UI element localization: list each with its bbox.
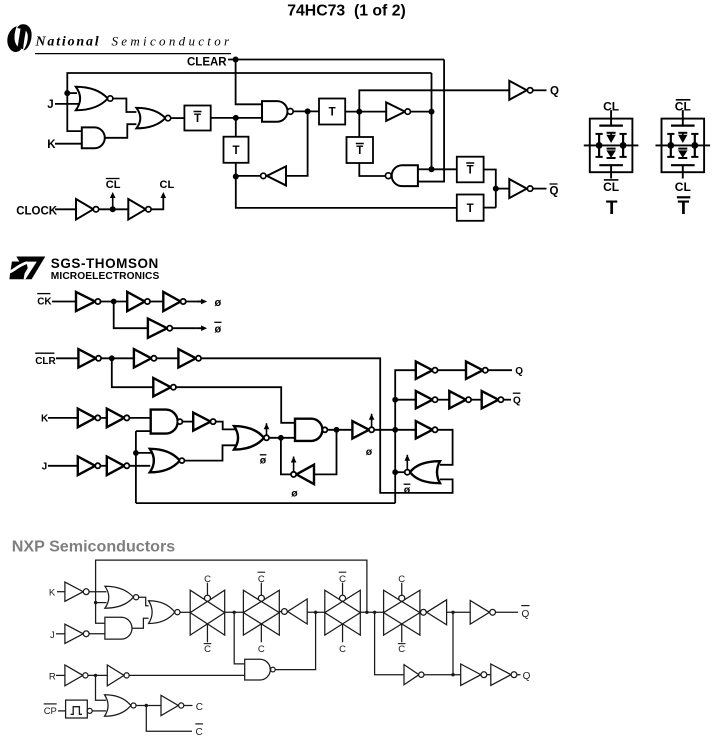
junction C node xyxy=(145,704,148,707)
wire E1 output xyxy=(269,437,295,439)
legend Tbar symbol label CLbar top xyxy=(675,99,691,113)
transmission-gate T1 (Tbar box) xyxy=(184,106,210,131)
svg-text:CK: CK xyxy=(37,296,52,307)
svg-text:T: T xyxy=(356,145,363,157)
wire T6 to Qbar node xyxy=(484,207,496,209)
label CPbar input xyxy=(44,704,57,717)
svg-text:Semiconductor: Semiconductor xyxy=(112,34,233,49)
wire N3 output to OR N5 xyxy=(139,597,149,606)
svg-text:C: C xyxy=(398,574,405,585)
label phi output xyxy=(215,297,222,309)
wire CLEAR branch to U1 top input xyxy=(236,60,262,105)
or-gate E1 (clocked) xyxy=(234,426,269,450)
wire C1 to C2 xyxy=(100,417,106,419)
label R input nxp xyxy=(49,671,56,682)
label Q output nxp xyxy=(523,671,531,682)
svg-text:K: K xyxy=(41,414,49,425)
inverter F1 (clocked, left pointing) xyxy=(291,465,314,484)
inverter B1 xyxy=(78,349,101,367)
svg-text:ø: ø xyxy=(260,455,267,467)
label K input xyxy=(41,414,49,425)
nand-gate D1 xyxy=(151,410,183,434)
wire T1 to U1 xyxy=(211,117,262,119)
junction Q row node xyxy=(451,673,454,676)
inverter A2 xyxy=(127,292,150,311)
junction node B xyxy=(233,174,239,180)
title 74HC73 (1 of 2) xyxy=(287,2,406,19)
nand-gate U4 (left pointing) xyxy=(385,165,418,186)
transmission-gate TG1 xyxy=(190,583,225,643)
label Cbar on TG2 top xyxy=(258,572,266,585)
inverter U2 (left pointing) xyxy=(261,166,286,185)
inverter N11 (R) xyxy=(65,665,88,686)
junction Q tap node xyxy=(373,611,376,614)
svg-text:ø: ø xyxy=(404,484,411,496)
svg-text:C: C xyxy=(204,644,211,655)
junction node C xyxy=(305,108,311,114)
wire U5 to Q xyxy=(533,89,547,91)
wire feedback to NOR N3 xyxy=(96,602,107,604)
svg-text:J: J xyxy=(47,99,53,111)
wire node D down to T4 xyxy=(358,112,360,137)
wire N9 to Qbar label xyxy=(496,611,519,613)
svg-text:CL: CL xyxy=(603,99,619,113)
legend Tbar symbol name Tbar xyxy=(677,197,690,219)
wire E2 output xyxy=(327,429,352,431)
wire feedback top line xyxy=(67,73,431,131)
junction CLbar node xyxy=(110,206,116,212)
wire D2 output to OR E1 lower input xyxy=(184,445,236,460)
legend T symbol name T xyxy=(606,198,618,219)
net CLEAR label xyxy=(187,57,227,69)
label C on TG4 top xyxy=(398,574,405,585)
nand-gate U1 xyxy=(262,101,293,122)
label Cbar on TG3 top xyxy=(339,572,347,585)
inverter U3 xyxy=(386,102,410,121)
inverter U8 (clock) xyxy=(128,199,151,220)
wire slave vertical xyxy=(395,370,416,503)
wire C2 to NAND D1 xyxy=(129,417,150,419)
wire TG4 to N7 bubble xyxy=(419,611,422,613)
nand-gate N8 xyxy=(245,659,276,680)
junction TG1-TG2 node xyxy=(233,611,236,614)
clock arrow on F1 xyxy=(291,457,297,472)
wire C node down to Cbar xyxy=(146,706,192,732)
wire G3 to T1 xyxy=(171,117,185,119)
inverter C5 xyxy=(107,457,130,476)
svg-text:T: T xyxy=(232,145,239,157)
wire D2 input upper xyxy=(136,452,152,454)
svg-text:T: T xyxy=(467,203,474,215)
svg-text:National: National xyxy=(35,35,101,50)
wire CLEAR vertical to U4 input xyxy=(418,60,444,182)
wire F2 output to slave node xyxy=(374,429,395,431)
nor-gate N3 xyxy=(105,586,139,608)
svg-text:J: J xyxy=(42,462,48,473)
MICROELECTRONICS logo text xyxy=(51,271,160,282)
label CL xyxy=(160,179,175,191)
wire K input nxp xyxy=(57,591,65,593)
label Cbar on TG4 bottom xyxy=(398,644,406,655)
buffer N10 xyxy=(404,665,424,685)
junction node E upper xyxy=(429,109,435,115)
wire U6 to Qbar xyxy=(533,188,547,190)
wire N2 to AND N4 xyxy=(89,633,106,635)
label phibar on E1 xyxy=(260,455,267,467)
wire N11 to N12 xyxy=(88,674,107,676)
arrow phibar output xyxy=(196,325,207,331)
wire A2 to A3 xyxy=(150,301,163,303)
label phibar output xyxy=(214,322,221,335)
svg-text:CL: CL xyxy=(603,180,619,194)
wire slave to G3 xyxy=(395,399,416,401)
clock arrow on F2 xyxy=(369,414,375,427)
label Qbar output xyxy=(550,184,559,197)
wire CPbar input xyxy=(58,710,66,712)
legend T transmission-gate symbol xyxy=(584,110,639,178)
inverter A1 xyxy=(76,292,101,311)
label phibar on H1 xyxy=(404,484,411,496)
svg-text:Q: Q xyxy=(550,185,559,197)
inverter N9 (Qbar output) xyxy=(470,600,495,624)
wire N13 output xyxy=(136,705,161,707)
SGS-THOMSON logo text xyxy=(51,256,159,271)
wire node down to T2 xyxy=(235,118,237,137)
junction CLEAR node xyxy=(233,57,239,63)
wire JK feedback vertical xyxy=(135,431,137,503)
wire U4 input lower from CLEAR xyxy=(418,181,444,183)
and-gate N4 xyxy=(105,617,132,639)
wire G1 output xyxy=(113,99,136,113)
svg-text:CL: CL xyxy=(675,99,691,113)
label Q output xyxy=(550,85,559,97)
wire A4 to phibar arrow xyxy=(172,327,196,329)
svg-text:K: K xyxy=(49,587,56,598)
label CLRbar input xyxy=(35,353,56,367)
inverter G3 xyxy=(416,391,438,408)
inverter A3 xyxy=(163,292,185,311)
wire N7 input net xyxy=(447,611,471,613)
junction E2 output node xyxy=(334,427,340,433)
wire N4 output to OR N5 xyxy=(132,618,149,628)
inverter N15 (C output) xyxy=(161,695,184,715)
wire G4 to G5 xyxy=(471,399,482,401)
transmission-gate T2 (T box) xyxy=(224,137,249,163)
legend Tbar symbol label CL bottom xyxy=(675,180,691,194)
transmission-gate T6 (T box) xyxy=(457,195,484,221)
junction master node xyxy=(278,435,284,441)
svg-text:CL: CL xyxy=(106,179,121,191)
wire F1 output to master node xyxy=(281,438,291,475)
wire feedback into G1 xyxy=(67,92,77,94)
label C on TG1 top xyxy=(204,574,211,585)
inverter N2 (J) xyxy=(65,624,89,643)
inverter U7 (clock) xyxy=(76,199,99,220)
label Q output sgs xyxy=(515,366,523,377)
inverter G5 xyxy=(482,391,504,408)
inverter U5 (Q output) xyxy=(509,81,533,100)
label C output xyxy=(196,702,203,713)
svg-text:T: T xyxy=(467,165,474,177)
inverter B2 xyxy=(134,349,157,367)
wire B3 long to right vertical xyxy=(201,358,453,493)
National Semiconductor logo mark xyxy=(7,24,31,52)
junction Qbar node xyxy=(493,186,499,192)
National Semiconductor logo text xyxy=(35,34,233,50)
inverter N16 xyxy=(461,664,487,685)
svg-text:C: C xyxy=(258,574,265,585)
wire Q tap down to N10 xyxy=(375,612,404,674)
inverter C3 xyxy=(193,413,216,431)
svg-text:ø: ø xyxy=(215,324,222,336)
label J input nxp xyxy=(50,630,55,641)
wire G5 to Qbar xyxy=(504,399,512,401)
junction node D xyxy=(356,109,362,115)
svg-text:T: T xyxy=(606,198,618,219)
junction feedback NOR input xyxy=(94,601,97,604)
transmission-gate TG3 xyxy=(325,583,361,643)
label J xyxy=(47,99,53,111)
wire N17 to Q label xyxy=(517,674,521,676)
wire slave to G6 xyxy=(395,429,416,431)
svg-text:NXP Semiconductors: NXP Semiconductors xyxy=(12,537,175,555)
wire CLRbar input xyxy=(56,357,78,359)
wire nxp feedback top xyxy=(96,560,367,612)
junction JK feedback node xyxy=(133,450,139,456)
inverter G6 xyxy=(416,421,438,438)
inverter N7 (left pointing) xyxy=(421,600,447,625)
svg-text:T: T xyxy=(678,198,690,219)
and-gate G2 xyxy=(82,127,105,148)
wire H1 output to slave node xyxy=(395,471,405,473)
svg-text:C: C xyxy=(339,574,346,585)
wire T2 to node B xyxy=(235,163,237,177)
wire A3 to phi arrow xyxy=(186,301,196,303)
clock arrow on E1 xyxy=(264,423,270,435)
wire input K xyxy=(55,143,83,145)
junction Qbar tap node xyxy=(451,611,454,614)
wire N14 to NOR N13 xyxy=(92,710,106,712)
svg-text:SGS-THOMSON: SGS-THOMSON xyxy=(51,256,159,271)
wire TG1-TG2 node down to NAND N8 xyxy=(234,612,245,664)
svg-text:C: C xyxy=(258,644,265,655)
wire Qbar tap vertical xyxy=(452,612,454,674)
wire D1 to C3 xyxy=(182,421,193,423)
inverter N17 xyxy=(491,664,517,685)
svg-text:CLOCK: CLOCK xyxy=(16,205,58,217)
wire T5 to Qbar node xyxy=(484,170,496,208)
wire N10 to N16 xyxy=(424,674,461,676)
nor-gate G1 xyxy=(76,87,113,111)
wire N1 to NOR N3 xyxy=(89,591,106,593)
wire E2 node down to F1 input xyxy=(314,430,337,475)
wire TG2 to N6 xyxy=(279,611,281,613)
wire U8 to CL arrow xyxy=(151,198,163,209)
label J input xyxy=(42,462,48,473)
wire D1 input lower xyxy=(136,430,151,432)
label K input nxp xyxy=(49,587,56,598)
label CLbar xyxy=(106,179,121,192)
wire B4 to NAND E2 top input xyxy=(176,387,295,423)
wire C5 to NOR D2 xyxy=(129,465,150,467)
transmission-gate T4 (Tbar box) xyxy=(347,137,374,163)
inverter N6 (left pointing) xyxy=(282,599,308,624)
wire U3 output to node E xyxy=(410,111,431,113)
svg-text:Q: Q xyxy=(550,85,559,97)
nor-gate G3 xyxy=(136,108,170,129)
inverter C2 xyxy=(107,409,130,428)
wire U7 to U8 xyxy=(99,208,129,210)
wire C4 to C5 xyxy=(100,465,106,467)
junction node E lower xyxy=(429,166,435,172)
svg-text:CL: CL xyxy=(160,179,175,191)
arrow CLbar xyxy=(110,192,116,208)
nand-gate E2 xyxy=(295,419,327,441)
inverter B3 xyxy=(178,349,201,367)
wire node E to T5 xyxy=(432,168,457,170)
svg-text:CL: CL xyxy=(675,180,691,194)
wire U2 output to node B xyxy=(236,175,261,177)
wire bottom feedback xyxy=(136,502,395,504)
junction feedback to G1 xyxy=(64,90,70,96)
label Cbar on TG1 bottom xyxy=(204,644,212,655)
wire N12 to NAND N8 xyxy=(129,674,245,676)
svg-text:Q: Q xyxy=(523,671,531,682)
svg-text:CLEAR: CLEAR xyxy=(187,57,227,69)
svg-text:J: J xyxy=(50,630,55,641)
svg-text:C: C xyxy=(339,644,346,655)
wire A1 to A2 xyxy=(101,301,128,303)
svg-text:Q: Q xyxy=(515,366,523,377)
label phi on F2 xyxy=(366,446,373,458)
svg-text:CP: CP xyxy=(44,706,57,717)
wire J input nxp xyxy=(56,633,65,635)
svg-text:K: K xyxy=(47,139,56,151)
wire TG3 to TG4 xyxy=(360,611,383,613)
wire CLEAR horizontal xyxy=(228,59,444,61)
inverter G2 xyxy=(466,362,488,379)
transmission-gate TG2 xyxy=(243,583,279,643)
label phi on F1 xyxy=(291,488,298,500)
label Qbar output nxp xyxy=(521,606,529,620)
transmission-gate T3 (T box) xyxy=(319,99,345,125)
wire CKbar input xyxy=(52,301,76,303)
wire Qbar node to U6 xyxy=(496,188,510,190)
label C on TG3 bottom xyxy=(339,644,346,655)
wire T4 to U4 output node xyxy=(359,163,385,176)
wire node B to T6 xyxy=(236,177,457,208)
nor-gate N13 xyxy=(105,695,137,717)
wire N15 to C label xyxy=(184,705,193,707)
arrow CL xyxy=(161,192,167,198)
wire K input xyxy=(48,417,78,419)
inverter A4 xyxy=(148,319,172,338)
wire N6 input net to TG3 xyxy=(307,611,325,613)
svg-text:C: C xyxy=(196,727,203,738)
NXP Semiconductors heading xyxy=(12,537,175,555)
inverter B4 xyxy=(153,378,176,396)
label C on TG2 bottom xyxy=(258,644,265,655)
SGS-THOMSON logo mark xyxy=(9,256,45,279)
svg-text:C: C xyxy=(398,644,405,655)
junction NAND N8 output node xyxy=(314,611,317,614)
wire node D up to Q line xyxy=(359,90,509,111)
wire T3 to node D xyxy=(345,111,386,113)
wire N5 to TG1 xyxy=(180,611,190,613)
inverter F2 (clocked) xyxy=(352,421,374,438)
wire vertical net E xyxy=(431,73,433,169)
svg-text:T: T xyxy=(329,107,336,119)
junction R node xyxy=(94,674,97,677)
wire U2 input from node C xyxy=(286,111,308,176)
wire B1 to B2 xyxy=(101,357,134,359)
wire TG1 to TG2 xyxy=(225,611,244,613)
wire J input xyxy=(48,465,78,467)
wire G3 to G4 xyxy=(438,399,450,401)
label Cbar output xyxy=(195,724,203,738)
svg-text:CLR: CLR xyxy=(35,356,56,367)
inverter G4 xyxy=(449,391,471,408)
svg-text:C: C xyxy=(204,574,211,585)
svg-text:T: T xyxy=(194,113,201,125)
svg-text:74HC73 (1 of 2): 74HC73 (1 of 2) xyxy=(287,2,406,19)
wire G6 to H1 input xyxy=(438,430,453,465)
svg-text:ø: ø xyxy=(291,488,298,500)
label Qbar output sgs xyxy=(513,393,521,407)
transmission-gate TG4 xyxy=(384,583,420,643)
transmission-gate T5 (Tbar box) xyxy=(457,157,484,183)
wire G1 to G2 xyxy=(438,369,466,371)
svg-text:ø: ø xyxy=(366,446,373,458)
wire R node down to NOR N13 xyxy=(96,675,107,700)
wire U1 output to T3 xyxy=(293,110,319,112)
legend T symbol label CLbar bottom xyxy=(603,180,619,194)
wire CLR node down to B4 xyxy=(112,358,154,387)
junction T1 output node xyxy=(233,115,239,121)
wire feedback to AND N4 xyxy=(96,603,107,624)
junction slave node row3 xyxy=(392,427,398,433)
junction phi node xyxy=(111,299,117,305)
svg-text:ø: ø xyxy=(215,297,222,309)
legend T symbol label CL top xyxy=(603,99,619,113)
wire phi node down to A4 xyxy=(114,302,148,329)
junction CLR node xyxy=(109,355,115,361)
inverter C4 xyxy=(78,457,101,476)
label K xyxy=(47,139,56,151)
buffer N12 xyxy=(107,665,129,686)
junction slave node row4 xyxy=(392,469,398,475)
svg-text:Q: Q xyxy=(522,609,530,620)
inverter U6 (Qbar output) xyxy=(509,179,533,198)
legend Tbar transmission-gate symbol xyxy=(656,110,711,178)
wire G2 output xyxy=(105,124,137,138)
svg-text:C: C xyxy=(196,702,203,713)
wire N8 output up to TG3 net xyxy=(275,612,315,669)
wire N16 to N17 xyxy=(487,674,491,676)
or-gate N5 xyxy=(149,601,180,624)
arrow phi output xyxy=(196,299,207,305)
inverter N1 (K) xyxy=(65,582,89,601)
svg-text:Q: Q xyxy=(513,396,521,407)
wire input J xyxy=(55,103,79,105)
junction slave node row2 xyxy=(392,397,398,403)
svg-text:MICROELECTRONICS: MICROELECTRONICS xyxy=(51,271,160,282)
wire G2 to Q xyxy=(488,369,512,371)
National Semiconductor logo underline xyxy=(35,53,231,55)
inverter C1 xyxy=(78,409,101,428)
inverter G1 xyxy=(416,362,438,379)
wire R input nxp xyxy=(56,674,65,676)
